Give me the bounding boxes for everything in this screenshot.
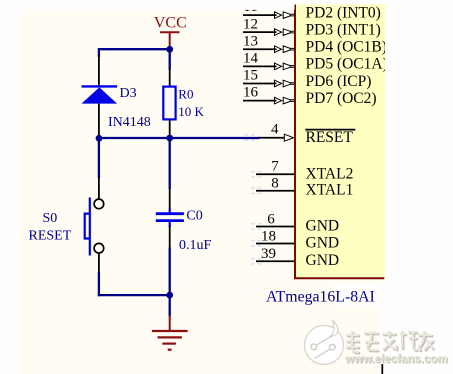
svg-text:GND: GND [306, 235, 340, 252]
IC left border [294, 5, 296, 280]
wire below switch [98, 272, 100, 296]
svg-text:39: 39 [261, 246, 276, 262]
resistor R0 top pin [169, 68, 171, 87]
svg-text:7: 7 [271, 159, 279, 175]
VCC stem [169, 32, 171, 47]
svg-text:14: 14 [243, 51, 259, 67]
resistor R0 bottom pin [169, 119, 171, 137]
resistor R0 body [163, 87, 175, 120]
grid markers [245, 134, 255, 141]
watermark CJK text (stylized strokes) [347, 332, 434, 353]
svg-text:GND: GND [306, 217, 340, 234]
wire below VCC junction [169, 47, 171, 70]
svg-text:6: 6 [267, 211, 275, 227]
svg-text:GND: GND [306, 252, 340, 269]
pin 14 arrows [275, 63, 295, 70]
svg-text:PD6 (ICP): PD6 (ICP) [306, 73, 372, 90]
pin 12 PD3 line [243, 31, 277, 33]
svg-text:PD2 (INT0): PD2 (INT0) [306, 4, 381, 21]
ground bar 4 [168, 349, 172, 351]
svg-text:18: 18 [261, 228, 276, 244]
svg-text:VCC: VCC [154, 14, 187, 31]
svg-text:R0: R0 [178, 86, 193, 101]
pin 4 RESET line [258, 137, 285, 139]
IC U1 body ATmega16L-8AI [296, 5, 385, 278]
switch S0 actuator [85, 198, 90, 256]
svg-text:PD3 (INT1): PD3 (INT1) [306, 22, 381, 39]
switch S0 bottom contact [94, 243, 104, 253]
svg-text:RESET: RESET [29, 228, 72, 243]
ground stem [169, 316, 171, 332]
pin 12 arrows [275, 29, 295, 36]
watermark logo circle [305, 321, 344, 365]
pin 13 arrows [275, 46, 295, 53]
ground bar 2 [158, 336, 182, 338]
VCC power bar [160, 31, 180, 33]
pin 18 GND line [256, 243, 295, 245]
svg-text:0.1uF: 0.1uF [179, 238, 212, 253]
junction dot at VCC [166, 46, 173, 53]
diode D3 bottom pin [98, 104, 100, 136]
svg-text:ATmega16L-8AI: ATmega16L-8AI [266, 288, 375, 305]
RESET overline [305, 129, 355, 131]
junction dot resistor/cap [166, 135, 173, 142]
svg-text:15: 15 [243, 68, 258, 84]
capacitor C0 top pin [169, 188, 171, 210]
svg-text:PD4 (OC1B): PD4 (OC1B) [306, 39, 387, 56]
svg-text:8: 8 [271, 175, 279, 191]
wire junction to ground [169, 295, 171, 316]
capacitor C0 bottom plate [156, 219, 184, 222]
pin 15 arrows [275, 80, 295, 87]
capacitor C0 bottom stub [169, 222, 171, 228]
wire down to switch [98, 138, 100, 178]
svg-text:16: 16 [243, 85, 259, 101]
switch S0 bottom pin [98, 253, 100, 273]
capacitor C0 bottom pin [169, 226, 171, 249]
svg-text:10 K: 10 K [178, 104, 204, 119]
svg-text:S0: S0 [43, 211, 58, 226]
pin 11 PD2 line [243, 14, 277, 16]
svg-text:RESET: RESET [306, 129, 354, 146]
black tick bottom right [381, 364, 383, 374]
top white margin band [0, 0, 295, 10]
svg-text:PD7 (OC2): PD7 (OC2) [306, 90, 377, 107]
IC bottom border [294, 277, 384, 279]
pin 11 arrows [275, 12, 295, 19]
pin 7 XTAL2 line [256, 173, 295, 175]
wire down to capacitor [169, 138, 171, 189]
white patch behind designator [333, 285, 380, 307]
diode D3 cathode bar [82, 85, 118, 87]
capacitor C0 top stub [169, 209, 171, 214]
svg-text:D3: D3 [120, 86, 137, 101]
svg-text:XTAL1: XTAL1 [306, 182, 354, 199]
pin 16 arrows [275, 97, 295, 104]
svg-text:PD5 (OC1A): PD5 (OC1A) [306, 56, 388, 73]
switch S0 top contact [94, 199, 104, 209]
junction dot bottom [166, 292, 173, 299]
svg-text:12: 12 [243, 16, 258, 32]
pin 13 PD4 line [243, 48, 277, 50]
junction dot diode/switch [96, 135, 103, 142]
wire middle horizontal [99, 137, 260, 139]
pin 16 PD7 line [243, 100, 277, 102]
ground bar 3 [162, 343, 176, 345]
wire bottom horizontal [98, 294, 170, 296]
pin 15 PD6 line [243, 83, 277, 85]
svg-text:XTAL2: XTAL2 [306, 165, 354, 182]
ground bar 1 [152, 330, 188, 332]
pin 14 PD5 line [243, 65, 277, 67]
svg-text:4: 4 [271, 121, 279, 137]
svg-text:IN4148: IN4148 [108, 115, 151, 130]
left white margin band [0, 0, 19, 374]
pin 4 arrow [284, 134, 293, 141]
wire below capacitor [169, 248, 171, 296]
schematic canvas background [19, 10, 380, 374]
pin 8 XTAL1 line [256, 190, 295, 192]
pin 39 GND line [256, 260, 295, 262]
diode D3 triangle [82, 87, 118, 103]
wire down to diode [98, 48, 100, 57]
pin 6 GND line [256, 226, 295, 228]
diode D3 top pin [98, 55, 100, 86]
wire VCC junction to left [99, 48, 170, 50]
svg-text:C0: C0 [186, 208, 202, 223]
capacitor C0 top plate [156, 212, 184, 215]
switch S0 top pin [98, 177, 100, 199]
svg-text:13: 13 [243, 33, 258, 49]
svg-text:www.elecfans.com: www.elecfans.com [344, 353, 447, 365]
